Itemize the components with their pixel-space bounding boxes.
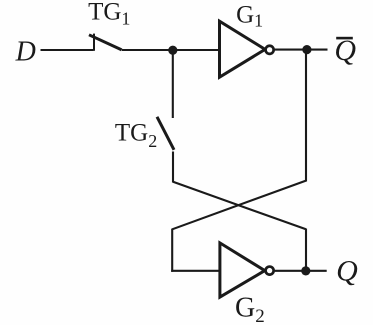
crossover wire Qbar to G2 (diagonal) [172,181,306,230]
inverter G1 bubble [266,46,274,54]
switch TG1 fixed contact tick [93,34,95,51]
svg-text:Q: Q [336,255,358,288]
junction node A [168,46,177,55]
svg-text:TG2: TG2 [115,120,157,151]
inverter G2 bubble [266,267,274,275]
wire TG2 down to crossover [172,152,174,183]
wire G2 input rail [171,270,220,272]
switch TG1 blade [89,35,122,50]
junction node Q [301,266,310,275]
crossover wire TG2 to node Q (diagonal) [173,182,306,230]
svg-text:G2: G2 [235,293,265,325]
wire TG1 to G1 input [122,49,220,51]
inverter G1 triangle [220,21,266,77]
wire crossover down to node Q [305,229,307,271]
label Qbar overline [336,37,353,40]
switch TG2 blade [157,117,174,150]
wire G1 to node Qbar [275,49,328,51]
wire node Qbar down to crossover [305,50,307,182]
wire D to TG1 [41,49,94,51]
wire G2 to node Q [275,270,327,272]
svg-text:Q: Q [334,34,356,67]
wire crossover down to G2 input rail [171,229,173,272]
inverter G2 triangle [220,243,265,297]
wire node A down to TG2 [172,50,174,118]
svg-text:D: D [15,36,36,67]
svg-text:TG1: TG1 [88,0,130,28]
junction node Qbar [302,45,311,54]
svg-text:G1: G1 [236,1,263,30]
